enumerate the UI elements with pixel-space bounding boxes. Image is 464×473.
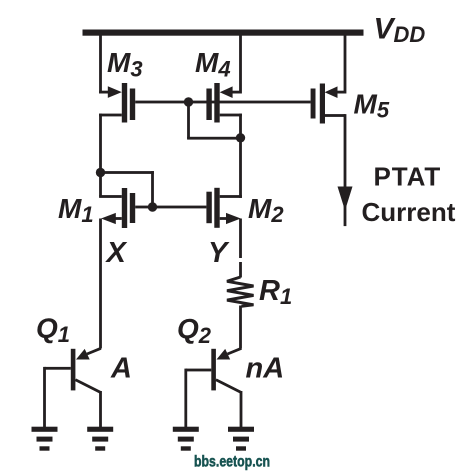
transistor M4 channel bar: [214, 83, 219, 123]
wire Q1 base ground drop: [43, 367, 46, 427]
wire PMOS gate line M3-M4-M5: [135, 101, 310, 104]
svg-text:M1: M1: [58, 193, 94, 227]
svg-text:A: A: [110, 353, 132, 385]
wire M2 drain lead: [220, 195, 242, 198]
arrow Q2 emitter: [217, 349, 231, 360]
wire M4 drain lead: [220, 114, 242, 117]
transistor M2 gate bar: [206, 192, 211, 224]
svg-text:R1: R1: [259, 275, 292, 309]
arrow M5 source: [325, 86, 338, 98]
wire R1 to Q2 emitter: [239, 306, 242, 349]
wire Q2 emitter diagonal: [228, 348, 242, 354]
wire Q1 collector ground drop: [99, 391, 102, 427]
wire Q1 base lead: [45, 367, 71, 370]
wire M4 drain down to M2: [239, 114, 242, 198]
svg-text:M5: M5: [354, 89, 390, 123]
wire M5 drain lead: [325, 114, 345, 117]
VDD rail: [83, 30, 364, 36]
wire Y to R1: [239, 262, 242, 278]
transistor Q1 base bar: [71, 349, 76, 391]
wire Q2 collector ground drop: [240, 391, 243, 427]
svg-text:M2: M2: [248, 193, 284, 227]
wire M4 source drop: [239, 35, 242, 94]
transistor M5 gate bar: [311, 89, 316, 119]
resistor R1 zigzag: [227, 277, 254, 306]
wire M2 source lead: [220, 217, 231, 220]
transistor M3 channel bar: [122, 83, 127, 123]
wire Q2 base ground drop: [184, 369, 187, 428]
arrow PTAT current: [338, 187, 353, 211]
node dot M3 drain / M1 gate tie: [96, 168, 105, 177]
arrow M4 source: [220, 86, 233, 98]
wire M1 tie horizontal: [101, 171, 154, 174]
wire M1 source lead: [110, 217, 122, 220]
transistor M5 channel bar: [320, 84, 325, 124]
svg-text:bbs.eetop.cn: bbs.eetop.cn: [194, 453, 270, 470]
arrow M3 source: [108, 86, 122, 98]
transistor M3 gate bar: [130, 89, 135, 121]
wire M3 drain lead: [99, 114, 122, 117]
wire M1 drain lead: [99, 195, 122, 198]
transistor M1 gate bar: [130, 193, 135, 223]
svg-text:Q1: Q1: [36, 313, 70, 348]
wire M1 tie vertical: [151, 171, 154, 207]
wire M4 gate-drain tie horizontal: [187, 137, 241, 140]
arrow M1 source: [101, 213, 116, 224]
svg-text:Current: Current: [362, 197, 456, 227]
wire Q2 base lead: [186, 369, 212, 372]
node dot PMOS gate: [184, 97, 193, 106]
transistor M1 channel bar: [122, 188, 127, 228]
transistor M2 channel bar: [214, 188, 219, 228]
svg-text:M4: M4: [195, 47, 231, 82]
ground G3: [173, 427, 199, 432]
wire NMOS gate line M1-M2: [135, 206, 206, 209]
transistor M4 gate bar: [206, 89, 211, 121]
svg-text:PTAT: PTAT: [374, 162, 442, 192]
ground G4: [228, 427, 254, 432]
wire M5 source lead: [334, 91, 346, 94]
ground G2: [87, 427, 113, 432]
transistor Q2 base bar: [211, 349, 216, 391]
wire M4 gate-drain tie vertical: [187, 102, 190, 139]
svg-text:VDD: VDD: [374, 13, 426, 48]
svg-text:M3: M3: [107, 47, 143, 82]
arrow Q1 emitter: [76, 349, 90, 360]
svg-text:Y: Y: [208, 237, 230, 269]
wire M3 source drop: [99, 35, 102, 94]
node dot M4 drain/gate: [236, 133, 245, 142]
arrow M2 source: [226, 213, 241, 224]
svg-text:Q2: Q2: [177, 313, 212, 348]
svg-text:nA: nA: [246, 353, 285, 385]
ground G1: [32, 427, 58, 432]
wire M3 drain to node: [99, 114, 102, 197]
wire Q1 emitter diagonal: [87, 348, 101, 354]
wire node Y down: [239, 219, 242, 259]
wire Q2 collector diagonal: [216, 380, 241, 393]
wire M4 source lead: [230, 91, 241, 94]
node dot M1 gate: [148, 202, 157, 211]
wire M3 source lead: [99, 91, 111, 94]
wire M5 drain down PTAT: [344, 114, 347, 226]
wire Q1 collector diagonal: [75, 380, 100, 393]
wire node X down to Q1 emitter: [99, 219, 102, 349]
wire M5 source drop: [344, 35, 347, 94]
svg-text:X: X: [105, 237, 128, 269]
